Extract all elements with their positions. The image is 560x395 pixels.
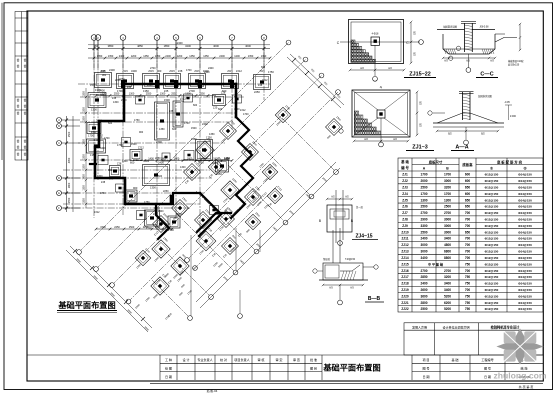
thick shear wall: top horizontal run xyxy=(124,83,236,86)
svg-text:ZJ8: ZJ8 xyxy=(402,218,408,222)
svg-text:1750: 1750 xyxy=(100,192,106,195)
thick wall stub left xyxy=(90,163,96,165)
svg-text:ZJ19: ZJ19 xyxy=(401,288,408,292)
svg-text:Φ12@150: Φ12@150 xyxy=(485,179,499,183)
svg-text:3400: 3400 xyxy=(131,69,137,73)
svg-text:1300: 1300 xyxy=(180,166,186,169)
svg-text:1300: 1300 xyxy=(97,175,103,178)
svg-text:日 期: 日 期 xyxy=(165,374,172,379)
svg-text:2700: 2700 xyxy=(156,140,162,144)
thick shear wall: centre horizontal + SW diagonal xyxy=(197,213,231,232)
thick shear wall: NE zigzag down to centre xyxy=(231,117,253,218)
svg-text:3000: 3000 xyxy=(444,179,451,183)
svg-text:ZJ1~3: ZJ1~3 xyxy=(412,145,427,151)
svg-text:700: 700 xyxy=(465,243,471,247)
svg-text:ZJ1: ZJ1 xyxy=(402,173,408,177)
svg-text:600: 600 xyxy=(172,127,177,131)
svg-text:ZJ5: ZJ5 xyxy=(164,203,169,206)
svg-text:900: 900 xyxy=(145,160,150,163)
ZJ foundation schedule table xyxy=(398,158,543,312)
svg-text:Φ12@150: Φ12@150 xyxy=(485,269,499,273)
svg-text:2400: 2400 xyxy=(109,68,115,72)
svg-text:ZJ22: ZJ22 xyxy=(401,307,408,311)
svg-text:6200: 6200 xyxy=(444,301,451,305)
svg-text:1300: 1300 xyxy=(420,198,427,202)
svg-text:700: 700 xyxy=(465,256,471,260)
svg-text:900: 900 xyxy=(108,169,113,172)
diagonal wing gridlines slope-down-left with end bubbles xyxy=(81,43,289,251)
svg-text:图 目: 图 目 xyxy=(310,367,317,371)
svg-text:2850: 2850 xyxy=(420,275,427,279)
svg-text:1400: 1400 xyxy=(200,157,206,160)
svg-text:会: 会 xyxy=(17,104,20,108)
leader stubs below top bubbles xyxy=(93,52,95,68)
svg-text:Φ12@150: Φ12@150 xyxy=(485,173,499,177)
svg-text:2550: 2550 xyxy=(171,92,177,95)
svg-text:审 查: 审 查 xyxy=(293,357,300,362)
svg-text:Φ12@150: Φ12@150 xyxy=(485,294,499,298)
svg-text:ZJ7: ZJ7 xyxy=(402,211,408,215)
svg-text:Φ12@150: Φ12@150 xyxy=(485,243,499,247)
svg-text:2550: 2550 xyxy=(114,92,120,95)
svg-text:ZJ8: ZJ8 xyxy=(112,97,117,100)
svg-text:ZJ14: ZJ14 xyxy=(401,256,408,260)
svg-text:2400: 2400 xyxy=(219,55,225,58)
svg-text:J08-5.08: J08-5.08 xyxy=(480,27,490,29)
svg-text:1500: 1500 xyxy=(68,131,71,137)
left binding title strip xyxy=(15,12,28,161)
svg-text:1700: 1700 xyxy=(104,137,110,140)
detail ZJ15~22 square plan xyxy=(337,20,424,82)
svg-text:ZJ4: ZJ4 xyxy=(402,192,408,196)
svg-text:1300: 1300 xyxy=(91,108,97,112)
svg-text:900: 900 xyxy=(139,131,144,134)
svg-text:ZJ21: ZJ21 xyxy=(401,301,408,305)
svg-text:3000: 3000 xyxy=(444,224,451,228)
svg-text:2700: 2700 xyxy=(444,211,451,215)
svg-text:会: 会 xyxy=(17,98,20,102)
svg-text:工程编号: 工程编号 xyxy=(481,357,493,362)
svg-text:Φ14@150: Φ14@150 xyxy=(518,192,532,196)
svg-text:2800: 2800 xyxy=(420,301,427,305)
svg-text:3400: 3400 xyxy=(444,288,451,292)
svg-text:1350: 1350 xyxy=(248,55,254,58)
svg-text:图 号: 图 号 xyxy=(422,366,429,371)
bottom strip labels xyxy=(165,357,530,379)
svg-text:Φ12@150: Φ12@150 xyxy=(485,224,499,228)
svg-text:批 准: 批 准 xyxy=(310,357,317,362)
svg-text:Φ12@150: Φ12@150 xyxy=(485,237,499,241)
svg-text:750: 750 xyxy=(465,275,471,279)
svg-text:650: 650 xyxy=(465,230,471,234)
svg-text:会: 会 xyxy=(24,64,27,68)
svg-text:会: 会 xyxy=(24,139,27,143)
svg-text:2400: 2400 xyxy=(208,67,214,70)
svg-text:B—B: B—B xyxy=(368,296,381,302)
svg-text:Φ14@150: Φ14@150 xyxy=(518,218,532,222)
svg-text:4-Φ18: 4-Φ18 xyxy=(372,33,379,36)
svg-text:3400: 3400 xyxy=(420,256,427,260)
svg-text:ZJ12: ZJ12 xyxy=(138,146,144,150)
svg-text:2250: 2250 xyxy=(114,226,120,229)
svg-text:ZJ16: ZJ16 xyxy=(401,269,408,273)
svg-text:5200: 5200 xyxy=(444,307,451,311)
svg-text:ZJ15: ZJ15 xyxy=(259,70,265,73)
svg-text:Φ12@150: Φ12@150 xyxy=(485,205,499,209)
detail C-C footing section xyxy=(437,22,524,73)
additional small footings xyxy=(98,156,108,165)
svg-text:2550: 2550 xyxy=(199,92,205,95)
svg-text:1350: 1350 xyxy=(83,91,86,97)
svg-text:Φ14@150: Φ14@150 xyxy=(518,269,532,273)
bottom title strip xyxy=(27,355,543,383)
svg-text:基础平面布置图: 基础平面布置图 xyxy=(322,362,380,372)
detail B-B section xyxy=(313,228,378,305)
svg-text:Φ12@150: Φ12@150 xyxy=(485,218,499,222)
svg-text:Φ12@150: Φ12@150 xyxy=(485,192,499,196)
diagonal wing gridlines slope-down-right with end bubbles xyxy=(282,118,334,170)
NE end bubbles of wing gridlines xyxy=(286,40,291,45)
svg-text:1200: 1200 xyxy=(131,55,137,58)
svg-text:1300: 1300 xyxy=(129,92,135,95)
svg-text:2900: 2900 xyxy=(420,218,427,222)
svg-text:3000: 3000 xyxy=(444,230,451,234)
svg-text:1350: 1350 xyxy=(83,174,86,180)
svg-text:ZJ17: ZJ17 xyxy=(401,275,408,279)
svg-text:ZJ15: ZJ15 xyxy=(169,70,175,73)
svg-text:Φ14@150: Φ14@150 xyxy=(518,250,532,254)
svg-text:会: 会 xyxy=(24,152,27,156)
svg-text:会: 会 xyxy=(24,98,27,102)
svg-text:1750: 1750 xyxy=(134,119,140,122)
svg-text:Φ12@150: Φ12@150 xyxy=(485,275,499,279)
svg-text:3000: 3000 xyxy=(420,243,427,247)
svg-text:1350: 1350 xyxy=(155,55,161,58)
svg-text:Φ14@150: Φ14@150 xyxy=(518,198,532,202)
svg-text:Φ14@150: Φ14@150 xyxy=(518,294,532,298)
svg-text:设计单位出调查声明: 设计单位出调查声明 xyxy=(442,324,469,329)
svg-text:A|: A| xyxy=(380,85,383,89)
svg-text:底板尺寸: 底板尺寸 xyxy=(428,160,443,165)
secondary dimension rows with ticks xyxy=(88,57,270,59)
svg-text:1500: 1500 xyxy=(129,226,135,229)
ZJ table texts xyxy=(400,159,532,311)
svg-text:会: 会 xyxy=(17,64,20,68)
svg-text:1400: 1400 xyxy=(174,157,180,160)
svg-text:2400: 2400 xyxy=(204,71,210,74)
svg-text:设 计: 设 计 xyxy=(182,357,189,362)
ortho vertical grid lines xyxy=(93,41,95,218)
svg-text:1700: 1700 xyxy=(444,173,451,177)
svg-text:项 目: 项 目 xyxy=(422,358,429,362)
svg-text:2400: 2400 xyxy=(224,158,230,161)
svg-text:Φ12@150: Φ12@150 xyxy=(485,211,499,215)
svg-text:2400: 2400 xyxy=(420,282,427,286)
svg-text:会: 会 xyxy=(17,145,20,149)
zhulong watermark logo xyxy=(496,328,543,364)
svg-text:1500: 1500 xyxy=(191,127,197,130)
svg-text:3000: 3000 xyxy=(444,218,451,222)
svg-text:日 期: 日 期 xyxy=(484,374,491,379)
svg-text:1800: 1800 xyxy=(213,157,219,160)
svg-text:750: 750 xyxy=(465,301,471,305)
svg-text:2600: 2600 xyxy=(420,288,427,292)
svg-text:C—C: C—C xyxy=(480,72,493,78)
svg-text:Φ14@150: Φ14@150 xyxy=(518,237,532,241)
top dimension line xyxy=(88,48,270,50)
svg-text:ZJ15: ZJ15 xyxy=(401,262,408,266)
wing lower-right boundary dimension lines xyxy=(196,162,336,302)
svg-text:会: 会 xyxy=(24,104,27,108)
svg-text:3400: 3400 xyxy=(444,282,451,286)
svg-text:600: 600 xyxy=(108,122,113,125)
scattered dimension texts (plan annotation texture) xyxy=(88,68,342,300)
svg-text:600: 600 xyxy=(218,108,223,111)
svg-text:ZJ5: ZJ5 xyxy=(153,213,158,216)
svg-text:图 号: 图 号 xyxy=(484,366,491,371)
svg-text:650: 650 xyxy=(465,205,471,209)
svg-text:@150x150: @150x150 xyxy=(508,65,520,67)
svg-text:3600: 3600 xyxy=(420,294,427,298)
svg-text:1350: 1350 xyxy=(83,198,86,204)
svg-text:B: B xyxy=(319,219,321,223)
svg-text:1700: 1700 xyxy=(243,113,249,116)
svg-text:Φ12@150: Φ12@150 xyxy=(485,256,499,260)
svg-text:2400: 2400 xyxy=(158,210,164,213)
svg-text:1350: 1350 xyxy=(97,134,103,137)
svg-text:基 础: 基 础 xyxy=(451,357,458,362)
svg-text:编 号: 编 号 xyxy=(401,165,409,170)
svg-text:绘 图: 绘 图 xyxy=(165,366,172,371)
svg-text:1700: 1700 xyxy=(184,122,190,125)
svg-text:2250: 2250 xyxy=(165,226,171,229)
svg-text:3400: 3400 xyxy=(212,162,218,165)
svg-text:会: 会 xyxy=(17,152,20,156)
svg-text:600: 600 xyxy=(465,173,471,177)
left dimension line xyxy=(66,116,68,212)
svg-text:1700: 1700 xyxy=(420,192,427,196)
svg-text:ZJ8: ZJ8 xyxy=(101,181,106,184)
svg-text:2400: 2400 xyxy=(165,55,171,58)
wing interior vertical axes xyxy=(190,235,192,316)
svg-text:700: 700 xyxy=(465,211,471,215)
svg-text:ZJ4~15: ZJ4~15 xyxy=(355,234,372,240)
svg-text:600: 600 xyxy=(193,104,198,107)
svg-text:750: 750 xyxy=(465,282,471,286)
svg-text:基础平面布置图: 基础平面布置图 xyxy=(57,300,115,310)
svg-text:C: C xyxy=(58,142,60,145)
svg-text:ZJ8: ZJ8 xyxy=(178,69,183,73)
svg-text:Φ14@150: Φ14@150 xyxy=(518,179,532,183)
svg-text:3200: 3200 xyxy=(444,275,451,279)
svg-text:結-施-04: 結-施-04 xyxy=(207,389,218,393)
svg-text:TJ2@150: TJ2@150 xyxy=(345,259,356,261)
svg-text:3400: 3400 xyxy=(96,119,102,123)
svg-text:ZJ9: ZJ9 xyxy=(402,224,408,228)
svg-text:基 础: 基 础 xyxy=(400,159,409,164)
svg-text:2250: 2250 xyxy=(254,90,260,94)
thick shear wall: mid horizontal branch xyxy=(173,193,200,204)
detail A-A footing section xyxy=(428,92,517,145)
svg-text:ZJ5: ZJ5 xyxy=(109,177,114,181)
svg-text:2550: 2550 xyxy=(146,92,152,95)
svg-text:1500: 1500 xyxy=(155,226,161,229)
svg-text:1700: 1700 xyxy=(444,192,451,196)
svg-text:Φ14@150: Φ14@150 xyxy=(518,243,532,247)
svg-text:6800: 6800 xyxy=(444,250,451,254)
svg-text:1350: 1350 xyxy=(90,153,96,157)
svg-text:ZJ11: ZJ11 xyxy=(401,237,408,241)
svg-text:750: 750 xyxy=(465,294,471,298)
svg-text:600: 600 xyxy=(261,66,266,69)
svg-text:Φ12@150: Φ12@150 xyxy=(485,262,499,266)
svg-text:2700: 2700 xyxy=(444,269,451,273)
svg-text:ZJ12: ZJ12 xyxy=(91,131,97,134)
svg-text:1350: 1350 xyxy=(108,55,114,58)
svg-text:Φ14@150: Φ14@150 xyxy=(518,205,532,209)
svg-text:1700: 1700 xyxy=(88,134,94,138)
svg-text:1350: 1350 xyxy=(83,116,86,122)
svg-text:4800: 4800 xyxy=(444,243,451,247)
svg-text:12400: 12400 xyxy=(175,41,183,45)
svg-text:ZJ15: ZJ15 xyxy=(148,70,154,73)
diagonal wing diamond footings xyxy=(196,141,214,159)
svg-text:Φ14@150: Φ14@150 xyxy=(518,211,532,215)
svg-text:5200: 5200 xyxy=(444,294,451,298)
svg-text:1350: 1350 xyxy=(191,138,197,141)
svg-text:ZJ12: ZJ12 xyxy=(94,211,100,214)
svg-text:会: 会 xyxy=(24,145,27,149)
svg-text:Φ12@150: Φ12@150 xyxy=(485,282,499,286)
svg-text:8800: 8800 xyxy=(444,256,451,260)
svg-text:ZJ8: ZJ8 xyxy=(258,84,263,87)
svg-text:Φ14@150: Φ14@150 xyxy=(518,307,532,311)
svg-text:2500: 2500 xyxy=(420,230,427,234)
vertical dim column x=86 xyxy=(85,88,87,208)
svg-text:700: 700 xyxy=(465,218,471,222)
thick shear wall: left staircase xyxy=(95,84,171,204)
svg-text:1300: 1300 xyxy=(444,198,451,202)
svg-text:2250: 2250 xyxy=(197,84,203,87)
svg-text:会: 会 xyxy=(17,139,20,143)
svg-text:Φ12@150: Φ12@150 xyxy=(485,250,499,254)
svg-text:2250: 2250 xyxy=(143,226,149,229)
svg-text:2250: 2250 xyxy=(216,172,222,176)
svg-text:D: D xyxy=(58,177,60,180)
svg-text:600: 600 xyxy=(465,192,471,196)
svg-text:ZJ12: ZJ12 xyxy=(240,109,246,112)
svg-text:1500: 1500 xyxy=(131,143,137,146)
svg-text:工 种: 工 种 xyxy=(165,357,172,362)
svg-text:1350: 1350 xyxy=(203,55,209,58)
svg-text:3300: 3300 xyxy=(420,224,427,228)
svg-text:700: 700 xyxy=(465,224,471,228)
svg-text:Φ14@150: Φ14@150 xyxy=(518,185,532,189)
thick shear wall: lower middle branch xyxy=(156,204,169,239)
svg-text:1200: 1200 xyxy=(234,55,240,58)
svg-text:ZJ18: ZJ18 xyxy=(401,282,408,286)
svg-text:1800: 1800 xyxy=(187,157,193,160)
svg-text:1350: 1350 xyxy=(83,139,86,145)
svg-text:校 对: 校 对 xyxy=(220,357,227,362)
svg-text:2700: 2700 xyxy=(420,269,427,273)
svg-text:ZJ5: ZJ5 xyxy=(169,110,174,113)
svg-text:会: 会 xyxy=(17,111,20,115)
svg-text:1500: 1500 xyxy=(234,108,240,111)
svg-text:ZJ3: ZJ3 xyxy=(402,185,408,189)
svg-text:1350: 1350 xyxy=(83,154,86,160)
svg-text:900: 900 xyxy=(133,186,138,190)
svg-text:Φ14@150: Φ14@150 xyxy=(518,282,532,286)
svg-text:底板高: 底板高 xyxy=(461,162,473,167)
svg-text:2700: 2700 xyxy=(121,99,127,102)
svg-text:1500: 1500 xyxy=(90,84,96,87)
top axis leader lines xyxy=(93,40,95,52)
svg-text:2250: 2250 xyxy=(163,190,169,193)
svg-text:Φ12@150: Φ12@150 xyxy=(485,307,499,311)
svg-text:ZJ2: ZJ2 xyxy=(402,179,408,183)
NE boundary dimension line of wing xyxy=(287,57,341,108)
svg-text:1200: 1200 xyxy=(177,55,183,58)
extra scatter micro-texts xyxy=(90,66,273,321)
svg-text:中 平 基 础: 中 平 基 础 xyxy=(428,261,443,266)
svg-text:Φ14@150: Φ14@150 xyxy=(518,262,532,266)
svg-text:1300: 1300 xyxy=(122,160,128,163)
svg-text:700: 700 xyxy=(465,269,471,273)
svg-text:3400: 3400 xyxy=(100,94,106,97)
column stubs on top wall xyxy=(121,80,125,88)
svg-text:ZJ12: ZJ12 xyxy=(180,97,186,101)
svg-text:1350: 1350 xyxy=(97,55,103,58)
svg-text:2400: 2400 xyxy=(119,55,125,58)
svg-text:1700: 1700 xyxy=(186,69,192,72)
svg-text:1300: 1300 xyxy=(160,92,166,95)
svg-text:3200: 3200 xyxy=(444,185,451,189)
detail ZJ4~15 column plan xyxy=(319,190,364,245)
svg-text:Φ14@150: Φ14@150 xyxy=(518,230,532,234)
svg-text:2000: 2000 xyxy=(420,179,427,183)
svg-text:2500: 2500 xyxy=(444,205,451,209)
svg-text:1350: 1350 xyxy=(209,133,215,136)
svg-text:600: 600 xyxy=(465,179,471,183)
svg-text:会: 会 xyxy=(17,58,20,62)
svg-text:检验韩机连专业设计: 检验韩机连专业设计 xyxy=(491,324,520,329)
svg-text:700: 700 xyxy=(465,288,471,292)
svg-text:2250: 2250 xyxy=(155,157,161,160)
svg-text:ZJ15: ZJ15 xyxy=(122,70,128,73)
svg-text:Φ14@150: Φ14@150 xyxy=(518,275,532,279)
detail ZJ1~3 square plan xyxy=(339,85,422,147)
thick shear wall: wing upper diagonal V xyxy=(199,193,221,236)
wing lower-left double dim line with ticks xyxy=(70,246,152,328)
svg-text:ZJ12: ZJ12 xyxy=(94,139,100,142)
svg-text:700: 700 xyxy=(465,250,471,254)
svg-text:1800: 1800 xyxy=(68,182,71,188)
top axis grid bubbles xyxy=(91,35,97,41)
svg-text:1350: 1350 xyxy=(83,107,86,113)
svg-text:700: 700 xyxy=(465,237,471,241)
svg-text:Φ14@150: Φ14@150 xyxy=(518,173,532,177)
svg-text:ZJ8: ZJ8 xyxy=(127,86,132,89)
svg-text:Φ12@150: Φ12@150 xyxy=(485,198,499,202)
svg-text:会: 会 xyxy=(24,111,27,115)
svg-text:1750: 1750 xyxy=(268,70,274,74)
svg-text:ZJ20: ZJ20 xyxy=(401,294,408,298)
svg-text:1750: 1750 xyxy=(144,201,150,204)
ortho horizontal grid lines xyxy=(78,83,270,85)
svg-text:ZJ5: ZJ5 xyxy=(402,198,408,202)
svg-text:2400: 2400 xyxy=(202,123,208,126)
